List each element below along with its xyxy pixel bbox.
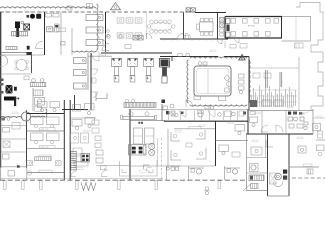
furniture: office SW desk bbox=[250, 112, 258, 127]
door: conf area door C bbox=[217, 39, 222, 44]
wall: storage divider bbox=[295, 17, 297, 42]
casework: bench west 1 bbox=[74, 58, 87, 64]
wall: x248 vert bbox=[247, 110, 249, 135]
wall: corridor y53 long bbox=[88, 53, 172, 56]
stair: corridor treads bbox=[71, 151, 76, 170]
casework: big room shelves W bbox=[226, 19, 230, 38]
equipment: mixer X-box bbox=[24, 24, 30, 30]
wall: x215 vert bbox=[215, 121, 217, 166]
wall: y109.5 training top bbox=[130, 109, 164, 111]
fixture: NE corner box bbox=[318, 131, 323, 138]
furniture: break room tables+chairs bbox=[117, 18, 142, 38]
equipment: fume hood 2 bbox=[128, 59, 138, 83]
equipment: autoclave dark bbox=[15, 22, 20, 38]
arrow: black tag bbox=[4, 97, 19, 107]
equipment: small circle bbox=[21, 21, 24, 24]
revision tag: triangle B bbox=[239, 55, 246, 61]
wall: y125 bbox=[1, 125, 27, 127]
revision cloud: kitchen right edge bbox=[97, 4, 98, 50]
wall: x0.7 porch bbox=[0, 167, 2, 180]
wall: y110 left block bbox=[62, 109, 88, 111]
furniture: left rooms desks bbox=[3, 128, 11, 160]
fixture: kitchen boxes bbox=[47, 28, 66, 32]
revision tag: triangle A1 bbox=[111, 3, 121, 10]
wall: big room west bbox=[224, 17, 226, 39]
structure: hatch zigzag left bbox=[81, 183, 96, 191]
door: double door y38 bbox=[133, 36, 143, 41]
fixture: wall circles y36 bbox=[107, 35, 123, 39]
room: wc3 bbox=[225, 166, 241, 180]
wall: y109 top band bbox=[164, 109, 248, 111]
fixture: west wall marks bbox=[1, 79, 4, 94]
wall: x31.5 vertical bbox=[31, 53, 33, 74]
door: natatorium SW bbox=[186, 100, 193, 107]
revision cloud: stair bubble bbox=[0, 109, 47, 121]
furniture: big room table grid bbox=[231, 19, 279, 37]
wall: x265 divider bbox=[265, 134, 267, 158]
wall: y148 office div bbox=[27, 147, 65, 149]
wall: lab101 east bbox=[44, 12, 46, 55]
fixture: WC left column bbox=[92, 69, 98, 98]
door: big room south bbox=[235, 38, 240, 43]
wall: y139 bbox=[1, 138, 27, 140]
furniture: training center cluster bbox=[129, 145, 147, 156]
wall: x262 vert bbox=[261, 111, 263, 135]
wall: E exterior stepped bbox=[311, 45, 323, 110]
fixture: pool interior bbox=[208, 69, 231, 94]
wall: mech north y68 bbox=[249, 67, 299, 69]
door: lab101 bbox=[36, 41, 44, 49]
wall: office E2 x70 bbox=[69, 100, 71, 180]
wall: office block bottom y172.5 bbox=[27, 172, 65, 174]
furniture: office row 1 desks bbox=[31, 117, 60, 128]
casework: shelf column bbox=[220, 18, 225, 37]
casework: util hatched row bbox=[249, 175, 264, 181]
wall: y120 training top bbox=[130, 120, 165, 122]
door: corridor arc2 bbox=[97, 48, 106, 57]
equipment: fume hood 1 bbox=[112, 59, 122, 83]
furniture: open office cluster3 bbox=[73, 148, 90, 162]
furniture: training tall tables bbox=[134, 122, 154, 144]
wall: servery x72 bbox=[71, 28, 73, 55]
wall: y152 bbox=[1, 151, 27, 153]
room: far right col bbox=[300, 111, 325, 156]
door: conf C bbox=[186, 34, 192, 40]
wall: y134 long bbox=[246, 133, 313, 135]
fixture: left tiny marks bbox=[2, 118, 10, 121]
wall: x286 vert bbox=[285, 111, 287, 135]
wall: west exterior bbox=[0, 12, 2, 110]
fixture: pool south boxes bbox=[194, 96, 226, 101]
svg-text:OFF. TYP: OFF. TYP bbox=[41, 147, 50, 149]
label: office row 4 bbox=[39, 170, 52, 172]
equipment: mech risers bbox=[250, 70, 282, 107]
label: room tags bbox=[12, 50, 322, 142]
wall: x74 vert bbox=[74, 95, 76, 110]
fixture: sink room bbox=[47, 27, 53, 32]
wall: bench nook bbox=[96, 93, 107, 102]
equipment: fume hood 4 dark bbox=[160, 59, 170, 84]
equipment: xbox right bbox=[270, 173, 277, 184]
equipment: dark pair bbox=[283, 170, 287, 180]
wall: y165 center bbox=[96, 165, 130, 167]
furniture: conf C table+chairs bbox=[196, 18, 213, 35]
fixture: util desk2 bbox=[250, 164, 259, 172]
structure: post right bbox=[218, 181, 221, 189]
bench: lab south hatched bbox=[124, 100, 156, 108]
room: spa pool bbox=[194, 66, 231, 96]
wall: NE exterior outline bbox=[296, 3, 323, 46]
door: break room south bbox=[102, 44, 131, 51]
wall: big room south bbox=[225, 37, 282, 39]
fixture: small circles x108 bbox=[107, 30, 110, 37]
fixture: entry vestibule marks bbox=[225, 41, 247, 48]
column: corridor box bbox=[61, 42, 66, 46]
wall: training inner bbox=[144, 138, 162, 180]
equipment: copy room cluster bbox=[288, 112, 308, 130]
furniture: round table W bbox=[0, 55, 8, 66]
door: lab west arc bbox=[92, 54, 100, 62]
wall: open office E x130 bbox=[129, 109, 131, 180]
wall: x33 vertical low bbox=[32, 88, 34, 112]
door: mid arc bbox=[101, 166, 108, 177]
wall: top exterior dashed bbox=[0, 11, 195, 13]
fixture: pool north items bbox=[198, 62, 207, 66]
fixture: small rect y76 bbox=[24, 76, 29, 80]
wall: top band bold x195-225 bbox=[195, 12, 226, 14]
fixture: pool equip right bbox=[239, 74, 245, 94]
room: NE office x215-246 bbox=[216, 125, 249, 158]
furniture: open office cluster1 bbox=[72, 118, 95, 130]
wall: x289 vert low bbox=[288, 134, 290, 196]
wall: x168 vert bbox=[167, 129, 169, 166]
wall: office W x26 bbox=[26, 110, 28, 168]
furniture: top band fixtures bbox=[166, 110, 246, 117]
wall: y52.5 left bbox=[1, 52, 32, 55]
bench: lab101 south bbox=[6, 47, 17, 50]
wall: bottom dashed y180 bbox=[0, 179, 246, 181]
label: big room bbox=[248, 26, 255, 28]
casework: bench west 2 bbox=[74, 70, 87, 76]
equipment: mech room piping bbox=[252, 85, 298, 107]
equipment: dark unit south bbox=[27, 46, 30, 50]
room: far left porch bbox=[1, 165, 27, 180]
wall: y113 office top bbox=[27, 113, 65, 115]
label: elec room bbox=[303, 114, 306, 116]
furniture: conf B chair ring bbox=[146, 13, 175, 40]
wall: x162 dark seg bbox=[162, 104, 168, 121]
fixture: small circle porch bbox=[27, 171, 31, 175]
svg-text:ROOM: ROOM bbox=[248, 26, 255, 28]
wall: bottom solid y180 left bbox=[0, 178, 163, 180]
wall: big room east bbox=[281, 17, 283, 39]
wall: y121 corr top bbox=[164, 120, 248, 122]
wall: storage east bbox=[310, 17, 312, 42]
wall: conf west x183 bbox=[183, 13, 185, 40]
fixture: y44 tick row bbox=[164, 39, 220, 41]
wall: conf south y39 bbox=[160, 38, 228, 40]
furniture: office row 2 desks bbox=[31, 133, 60, 144]
door: conf B arcs bbox=[147, 34, 189, 40]
fixture: counter items top bbox=[46, 14, 60, 18]
wall: storage room top bbox=[282, 16, 311, 18]
wall: lab west x91 bbox=[90, 53, 92, 110]
bench: lab101 hatched bbox=[12, 32, 28, 36]
wall: office E x64 bbox=[63, 100, 65, 180]
furniture: desks upper row bbox=[38, 102, 95, 115]
wall: dash right tail bbox=[292, 177, 325, 179]
casework: bench east 2 bbox=[86, 27, 103, 33]
room: office desk SW2 bbox=[251, 140, 273, 155]
furniture: big office L-desks bbox=[171, 130, 206, 160]
revision cloud: top-left bbox=[0, 7, 96, 9]
wall: y110 right bbox=[248, 110, 313, 112]
casework: counter y117 bbox=[120, 112, 156, 120]
wall: mech west x249 bbox=[248, 57, 250, 111]
fixture: corridor items y54 bbox=[178, 54, 190, 57]
wall: y128 corridor bbox=[174, 128, 216, 130]
revision cloud: kitchen bottom bbox=[72, 51, 97, 52]
wall: storage south bbox=[282, 40, 311, 42]
wall: big room top bbox=[225, 16, 282, 18]
bench: mid hatched bbox=[31, 79, 46, 87]
fixture: storage marks bbox=[295, 43, 304, 48]
wall: y167 right wing bbox=[289, 164, 319, 167]
fixture: right edge box bbox=[307, 169, 313, 174]
equipment: fan coils bbox=[149, 143, 155, 155]
svg-text:OFF. TYP: OFF. TYP bbox=[41, 129, 50, 131]
wall: corridor x61 bbox=[60, 12, 62, 55]
wall: y74 left bbox=[1, 73, 32, 75]
wall: lab east x172 bbox=[171, 57, 173, 62]
revision cloud: natatorium bbox=[187, 57, 250, 106]
fixture: tall cab bbox=[55, 24, 60, 32]
fixture: under-cloud boxes bbox=[162, 100, 214, 110]
wall: y173 util bbox=[247, 172, 268, 174]
room: wc2 bbox=[189, 166, 205, 180]
furniture: left room box bbox=[12, 123, 20, 130]
casework: office row 4 bench bbox=[34, 157, 51, 161]
wall: y166 bottom bbox=[130, 165, 216, 167]
door: double entry top bbox=[186, 8, 195, 12]
wall: y118 center bbox=[70, 117, 96, 119]
label: office row 1 bbox=[40, 128, 56, 131]
label: office row 2 bbox=[40, 146, 56, 149]
equipment: dark icons row bbox=[27, 14, 42, 19]
label: corridor strip bbox=[189, 126, 201, 129]
room: WC mid-left bbox=[34, 90, 45, 111]
furniture: office row 4 side desks bbox=[27, 161, 61, 166]
structure: mid rooms labels bbox=[74, 162, 88, 170]
wall: top exterior ticks bbox=[6, 11, 186, 13]
wall: y131 office div bbox=[27, 130, 65, 132]
structure: porch posts bbox=[4, 181, 158, 190]
wall: corridor y56 right bbox=[160, 56, 218, 58]
wall: x26 upper bbox=[26, 110, 28, 122]
room: x120-157 south bbox=[120, 160, 158, 176]
wall: x267 vert low bbox=[267, 134, 269, 196]
wall: bench wall x105 bbox=[105, 12, 107, 52]
casework: bench west 3 bbox=[74, 83, 87, 89]
wall: corridor x88 bbox=[87, 53, 89, 90]
vent: top marks bbox=[67, 4, 93, 11]
wall: x246 vert low bbox=[246, 134, 248, 191]
equipment: mech units bbox=[253, 73, 283, 106]
furniture: round table E bbox=[15, 60, 29, 71]
label: corridor text bbox=[196, 178, 201, 180]
label: office row 3 top bbox=[39, 155, 51, 157]
equipment: dark cluster A bbox=[6, 85, 17, 94]
casework: bench east 3 bbox=[86, 40, 103, 46]
equipment: fume hood 3 bbox=[144, 59, 154, 83]
symbol: section marker bbox=[204, 187, 211, 195]
door: porch right arc bbox=[71, 172, 76, 177]
wall: corridor y56 right2 bbox=[224, 56, 249, 58]
room: wc1 bbox=[166, 166, 180, 180]
casework: bench east 1 bbox=[86, 15, 103, 21]
furniture: open office east col bbox=[92, 120, 103, 163]
svg-text:........: ........ bbox=[196, 178, 201, 180]
wall: x313 vert bbox=[312, 109, 314, 134]
wall: mech east x299 bbox=[298, 57, 300, 110]
wall: conf east x217 bbox=[217, 13, 219, 40]
door: corridor arc1 bbox=[98, 33, 106, 41]
wall: lab101 south bbox=[1, 54, 45, 56]
furniture: open office cluster2 bbox=[71, 133, 89, 143]
fixture: util marks2 bbox=[243, 184, 258, 192]
door: twin arcs room bbox=[261, 125, 283, 132]
wall: y190 bottom util bbox=[247, 191, 290, 197]
wall: y157 util bbox=[247, 157, 268, 159]
room: office desk E bbox=[298, 146, 306, 153]
fixture: wash fountain bbox=[273, 173, 283, 186]
wall: top band partitions bbox=[169, 111, 238, 122]
wall: west lower exterior bbox=[0, 110, 2, 168]
